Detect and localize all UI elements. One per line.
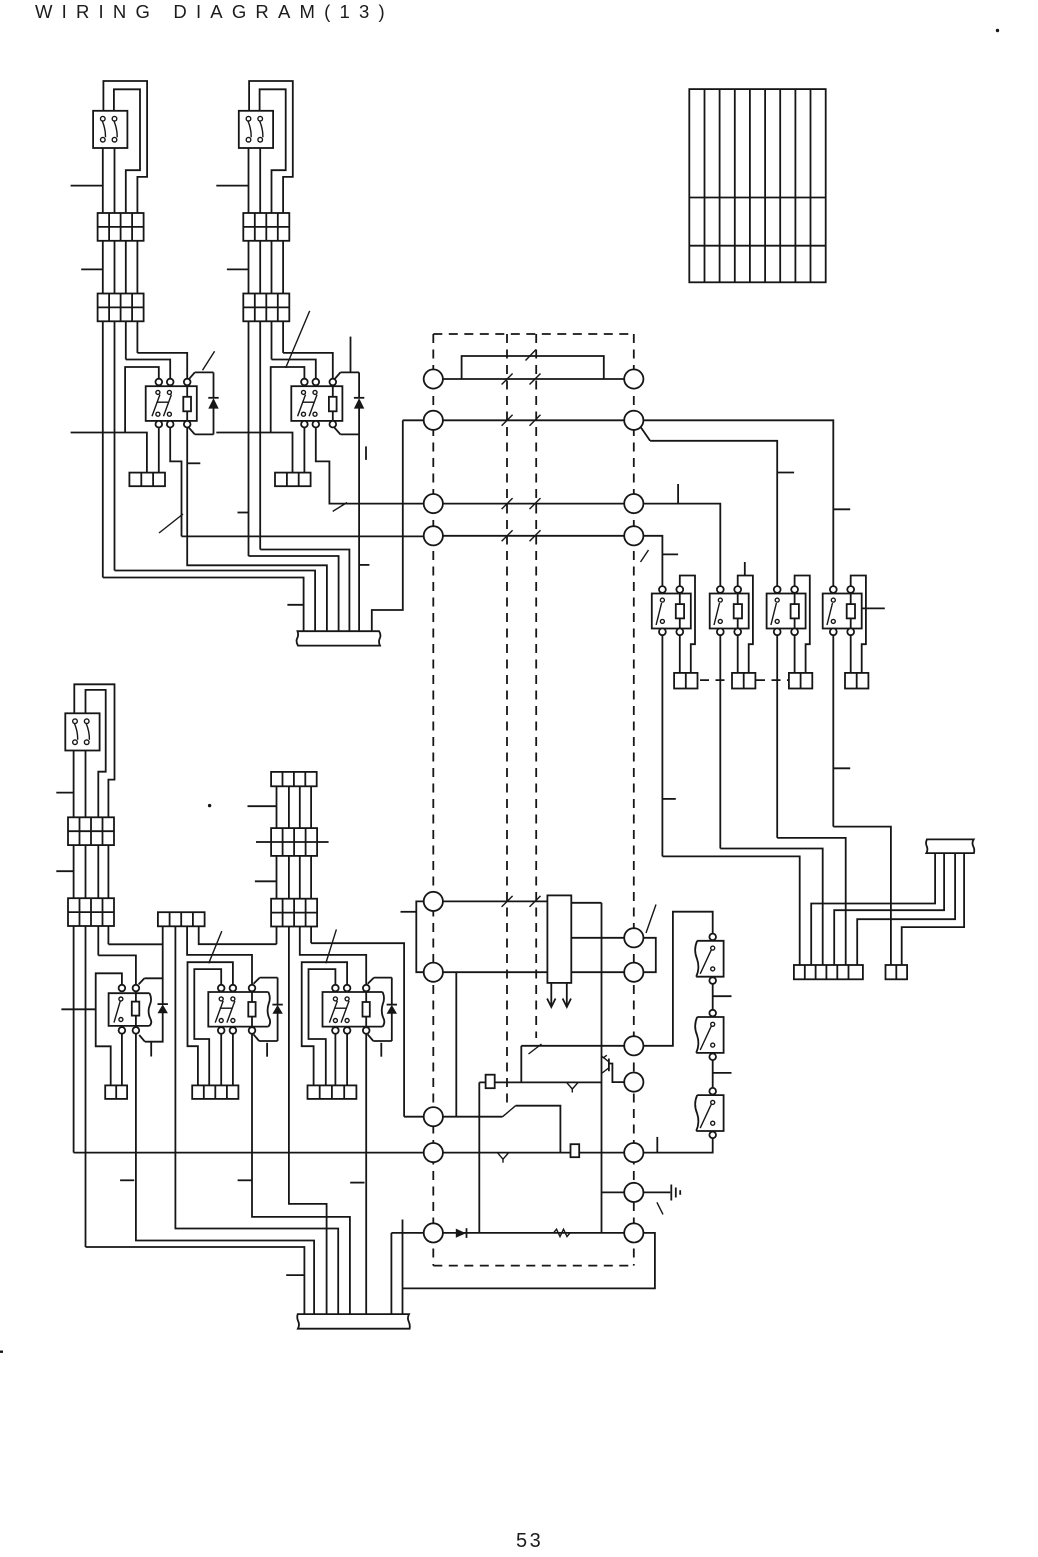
- wire column w4 to sensor row: [311, 943, 404, 1116]
- diode D6: [456, 1228, 467, 1238]
- wire K1 long to row4: [182, 535, 425, 537]
- wire row4: [424, 535, 634, 537]
- ground symbol: [671, 1185, 680, 1201]
- wire column between blocks: [277, 856, 312, 899]
- connector CN-K1: [129, 473, 165, 487]
- wire loop sub3 outer: [74, 684, 114, 817]
- node circles top left column: [424, 369, 443, 545]
- arrow U1 right: [563, 983, 571, 1007]
- component box U1 (motor block): [547, 895, 571, 983]
- wire K1 around path: [71, 367, 159, 473]
- connector CN-K3: [674, 673, 697, 689]
- wire stub K6 right: [862, 607, 884, 609]
- wire CN-M cell1 to KA diode bus: [162, 926, 164, 978]
- wire row return: [433, 971, 547, 973]
- annotation slash bracket: [646, 905, 656, 934]
- wire tick sub2: [238, 512, 249, 514]
- wire row3 to K4: [634, 504, 721, 590]
- switch slashes row motor: [502, 896, 541, 907]
- dashed link to relay connectors: [700, 679, 789, 681]
- connector CN-R (torn top right): [926, 839, 974, 853]
- wire tick KC right: [380, 1043, 382, 1057]
- dashed inner boundary B: [535, 334, 537, 1038]
- wire tick row3: [677, 484, 679, 504]
- wire sub2 to CN1 pins: [249, 550, 350, 632]
- wire CN-R pin2: [834, 853, 944, 965]
- terminal block TB3: [243, 213, 289, 241]
- wire bottom row to CN2: [390, 1233, 392, 1314]
- connector CN1 (bar): [297, 631, 381, 645]
- wire SW1-SW2: [712, 984, 714, 1010]
- wire sub3 box to TB6: [74, 751, 86, 818]
- node circles top right column: [624, 369, 643, 545]
- wire sub1 box to TB1: [103, 148, 115, 213]
- switch slash bypass top: [526, 350, 537, 361]
- fuse F2: [571, 1144, 580, 1157]
- wire KA feeds: [98, 944, 162, 985]
- wire ground row: [602, 1191, 671, 1193]
- wire stub left sub2 upper: [216, 185, 248, 187]
- wire column w3 to KC coil: [300, 927, 366, 985]
- wire column w1 down: [276, 927, 278, 945]
- wire KA pins down: [122, 1034, 314, 1314]
- wire drop F1 left: [478, 1082, 480, 1233]
- relay K6: [823, 586, 862, 635]
- wire row1: [433, 378, 634, 380]
- wire K5 to strip: [777, 838, 846, 965]
- wire tick K2 stub up: [350, 337, 352, 373]
- annotation slash KC: [326, 929, 337, 963]
- wire stub crossing KA: [61, 1008, 95, 1010]
- connector strip CN-S2: [886, 965, 908, 979]
- wire row sensor: [404, 1106, 560, 1153]
- wire CN-M cell3 to KB: [187, 926, 252, 985]
- thermal contact T2: [497, 1153, 508, 1163]
- terminal block TB2: [98, 294, 144, 322]
- wire tick K5 feed: [777, 472, 794, 474]
- terminal block TB5 (top right): [689, 89, 825, 282]
- dot speck left edge: [0, 1351, 3, 1353]
- wire box right taps: [571, 903, 634, 972]
- wire sub1 down to K1 and CN1: [103, 321, 138, 577]
- dashed connector boundary box: [433, 334, 634, 1266]
- plug switch S1: [93, 111, 127, 148]
- relay K3 bypass wire: [680, 576, 695, 673]
- wire KC around path inner: [309, 969, 336, 1085]
- wire K1 bottom pins: [159, 427, 327, 631]
- switch slashes row3: [502, 498, 541, 509]
- switch slashes row1: [502, 374, 541, 385]
- wire sub3 down: [74, 926, 109, 1247]
- wire tick K6 feed upper: [833, 508, 850, 510]
- connector CN-K5: [789, 673, 812, 689]
- wire sub3 w2 to CN2 pin1: [86, 1247, 305, 1314]
- connector strip CN-A: [105, 1085, 127, 1099]
- wire row motor feed: [433, 900, 547, 902]
- wire K4 to strip: [720, 849, 822, 966]
- wire K1 coil feed: [126, 353, 187, 379]
- door switch SW1: [695, 934, 723, 984]
- wire tick CN1 left: [287, 604, 303, 606]
- wire row2 diagonal to K5: [641, 427, 777, 589]
- wire column strip down: [277, 786, 312, 828]
- wire door chain top: [634, 912, 713, 1046]
- diode DA: [139, 978, 168, 1041]
- wire stub left sub2 lower: [227, 268, 249, 270]
- wire tick chain3: [656, 1137, 658, 1153]
- annotation slash wire1: [159, 514, 183, 533]
- wire sub3 between blocks: [74, 845, 109, 898]
- wire KC pins down: [335, 1034, 366, 1314]
- relay K4 bypass wire: [738, 576, 753, 673]
- wire sub2 between blocks: [249, 241, 284, 294]
- wire bottom row: [391, 1232, 633, 1234]
- relay K6 bypass wire: [851, 576, 866, 673]
- wire K5 pins down: [777, 635, 794, 838]
- connector strip CN-C: [308, 1085, 357, 1099]
- relay K5: [767, 586, 806, 635]
- wire row 1152 right stub: [634, 1152, 644, 1154]
- relay KB: [208, 978, 282, 1041]
- wire stub left sub3 lower: [56, 870, 73, 872]
- wire sub1 between blocks: [103, 241, 138, 294]
- wire ticks bundle row: [120, 1180, 364, 1182]
- switch slashes row4: [502, 530, 541, 541]
- wire row2 feedback to CN1: [372, 420, 403, 631]
- connector CN-K4: [732, 673, 755, 689]
- wire K4 pins down: [720, 635, 737, 848]
- wire sub2 box to TB3: [249, 148, 261, 213]
- wire tick KB right: [266, 1043, 268, 1057]
- arrow U1 left: [547, 983, 555, 1007]
- wire SW2-SW3: [712, 1060, 714, 1087]
- terminal block TB4: [243, 294, 289, 322]
- wire K2 around path: [216, 367, 304, 473]
- wire sub2 down to K2 and CN1: [249, 321, 284, 556]
- connector CN2 (bar): [297, 1314, 410, 1329]
- dot speck middle left: [208, 804, 211, 807]
- relay KA: [109, 985, 152, 1034]
- annotation slash K3: [641, 550, 649, 562]
- wire NO contact row: [521, 1044, 634, 1082]
- wire tick chain1: [713, 995, 732, 997]
- wire KB around path inner: [194, 969, 221, 1085]
- relay K3: [652, 586, 691, 635]
- wire crossing TB8 mid: [256, 841, 329, 843]
- wire feed row 1082: [479, 1081, 601, 1083]
- annotation slash ground: [657, 1202, 663, 1214]
- wire sub1 to CN1 pins: [103, 571, 315, 632]
- wire column w2 to CN2: [289, 927, 327, 1315]
- wire CN-R pin4: [902, 853, 964, 965]
- relay K2: [291, 372, 364, 434]
- wire CN-R pin1: [811, 853, 935, 965]
- wire tick K1: [187, 462, 200, 464]
- wire row4 to K3: [634, 536, 663, 590]
- wire tick K4 bypass: [744, 562, 746, 576]
- dashed inner boundary A: [506, 334, 508, 1105]
- switch slashes row2: [502, 415, 541, 426]
- door switch SW3: [695, 1088, 723, 1138]
- relay K4: [710, 586, 749, 635]
- plug switch S2: [239, 111, 273, 148]
- wire stub left sub3 upper: [56, 792, 73, 794]
- wire tick K3 drop: [662, 798, 675, 800]
- resistor R1: [554, 1229, 571, 1236]
- terminal block TB6: [68, 817, 114, 845]
- plug switch S3: [65, 713, 99, 750]
- node circles mid right column: [624, 928, 643, 1242]
- wire KB around path outer: [188, 962, 233, 1085]
- wire row2: [403, 419, 634, 421]
- wire K6 pins down: [833, 635, 850, 826]
- relay K1: [146, 372, 219, 434]
- wire loop sub1 outer: [103, 81, 147, 213]
- wire CN-M cell4 to column w1: [199, 926, 277, 944]
- wire K6 to strip: [833, 827, 891, 965]
- wire CN-R pin3: [857, 853, 955, 965]
- connector strip CN-B: [192, 1085, 238, 1099]
- wire return loop right: [403, 1220, 655, 1315]
- wire loop sub2 outer: [249, 81, 293, 213]
- dot speck upper right: [996, 29, 999, 32]
- wire CN-M cell2 to CN2: [175, 926, 338, 1314]
- thermal contact T1: [567, 1082, 579, 1092]
- wire row3: [424, 503, 634, 505]
- annotation slash KB: [209, 931, 222, 963]
- wire row2 to K6: [634, 420, 834, 589]
- wire tick K3 feed: [662, 553, 678, 555]
- wire tick KA right: [150, 1042, 152, 1056]
- wire tick CN2 left: [286, 1274, 304, 1276]
- terminal block TB1: [98, 213, 144, 241]
- transistor Q1: [602, 1055, 625, 1082]
- terminal block TB9: [271, 899, 317, 927]
- wire bracket left of mid circles: [401, 901, 425, 972]
- wire KA around path: [96, 973, 122, 1085]
- node circles mid left column: [424, 892, 443, 1243]
- wire long row 1152: [74, 1152, 634, 1154]
- wire SW3 bottom to row: [643, 1138, 712, 1152]
- wire KC around path outer: [302, 962, 347, 1085]
- annotation slash K2: [286, 311, 310, 368]
- wire K3 to strip: [662, 856, 799, 965]
- wire tick chain2: [713, 1072, 732, 1074]
- connector CN-M (middle 4 way): [158, 912, 205, 926]
- annotation slash K1: [203, 351, 215, 370]
- terminal block TB7: [68, 898, 114, 926]
- fuse F1: [486, 1075, 495, 1089]
- wire tick K6 drop: [833, 767, 850, 769]
- wire tick K2 drop: [359, 564, 369, 566]
- wire long vertical bus: [601, 903, 603, 1233]
- connector strip CN-S1: [794, 965, 863, 979]
- door switch SW2: [695, 1010, 723, 1060]
- wire stub left sub1 upper: [71, 185, 103, 187]
- connector CN-K6: [845, 673, 868, 689]
- wire stub column upper: [248, 805, 277, 807]
- relay KC: [323, 978, 398, 1041]
- wire column w4 top: [310, 927, 312, 944]
- wire K2 bottom pins: [304, 427, 424, 631]
- connector CN-C4 (column strip): [271, 772, 317, 786]
- wire K2 coil feed: [272, 353, 333, 379]
- wire tick K2: [365, 446, 367, 460]
- terminal block TB8: [271, 828, 317, 856]
- annotation slash wire2: [333, 503, 347, 512]
- wire K3 pins down: [662, 635, 679, 856]
- wire stub left sub1 lower: [81, 268, 103, 270]
- connector CN-K2: [275, 473, 311, 487]
- wire bracket right of mid circles: [643, 938, 655, 972]
- bypass box row1: [462, 356, 604, 379]
- relay K5 bypass wire: [795, 576, 810, 673]
- wire drop from return row: [455, 972, 457, 1116]
- wire stub column lower: [255, 880, 277, 882]
- wire KB pins down: [221, 1034, 350, 1314]
